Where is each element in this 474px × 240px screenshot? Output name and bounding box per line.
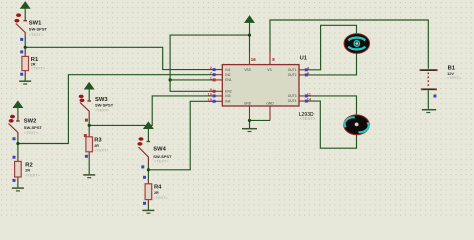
- svg-text:<TEXT>: <TEXT>: [153, 195, 168, 200]
- switch SW1: [14, 13, 27, 41]
- svg-text:SW2: SW2: [24, 119, 37, 125]
- svg-text:10: 10: [208, 92, 213, 97]
- wire SW1 column: [24, 8, 26, 81]
- svg-text:OUT1: OUT1: [288, 68, 297, 72]
- wire OUT1 to motor M1 top: [305, 25, 357, 70]
- svg-text:<TEXT>: <TEXT>: [31, 65, 46, 70]
- svg-text:IN4: IN4: [225, 100, 230, 104]
- IC pin numbers top: [251, 57, 275, 62]
- resistor R2: [13, 156, 22, 182]
- ground below R1: [19, 81, 31, 84]
- ground below IC: [242, 129, 257, 132]
- battery B1: [420, 69, 438, 97]
- svg-text:<TEXT>: <TEXT>: [447, 76, 461, 80]
- svg-text:SW4: SW4: [153, 147, 166, 153]
- svg-text:16: 16: [251, 57, 256, 62]
- svg-text:SW-SPST: SW-SPST: [24, 125, 43, 130]
- svg-text:IN1: IN1: [225, 68, 230, 72]
- IC top pin stubs: [250, 51, 271, 65]
- wire VS pin8 to battery positive: [270, 20, 428, 69]
- label R2: [25, 163, 40, 178]
- svg-text:IN3: IN3: [225, 94, 230, 98]
- svg-text:<TEXT>: <TEXT>: [300, 116, 316, 121]
- IC pin numbers right: [307, 65, 312, 101]
- power arrow for SW2: [13, 101, 22, 107]
- svg-text:VSS: VSS: [244, 68, 251, 72]
- motor M1: [344, 34, 370, 54]
- label SW3: [95, 97, 114, 112]
- ground below battery: [422, 110, 436, 113]
- svg-text:R3: R3: [94, 138, 102, 144]
- svg-text:R4: R4: [154, 185, 162, 191]
- svg-text:<TEXT>: <TEXT>: [25, 172, 40, 177]
- wire SW3 column: [88, 89, 90, 175]
- svg-text:GND: GND: [244, 101, 252, 105]
- wire VCC arrow to VSS pin16: [249, 21, 251, 52]
- IC bottom GND pin stubs: [250, 106, 271, 120]
- wire VCC rail to EN1/EN2: [170, 35, 249, 91]
- resistor R3: [84, 133, 93, 158]
- ground below R4: [142, 210, 154, 213]
- label SW4: [153, 147, 172, 164]
- svg-text:GND: GND: [266, 101, 274, 105]
- label B1: [447, 65, 461, 80]
- IC left pin stubs: [216, 70, 222, 102]
- power arrow for SW1: [21, 2, 30, 8]
- IC left pin terminal squares: [213, 68, 216, 103]
- svg-text:EN2: EN2: [225, 90, 232, 94]
- svg-text:OUT3: OUT3: [288, 94, 297, 98]
- resistor R4: [143, 176, 152, 205]
- svg-text:<TEXT>: <TEXT>: [94, 148, 109, 153]
- svg-text:<TEXT>: <TEXT>: [154, 158, 169, 163]
- resistor R1: [20, 50, 28, 75]
- wire OUT3 to motor M2 top: [305, 96, 357, 116]
- wire SW2 to IN2: [18, 75, 216, 144]
- switch SW4: [137, 137, 150, 168]
- op-amp U1 L293D IC body: [222, 65, 299, 106]
- svg-text:EN1: EN1: [225, 78, 232, 82]
- svg-text:<TEXT>: <TEXT>: [24, 130, 39, 135]
- wire SW3 to IN3: [89, 96, 216, 126]
- IC right pin stubs: [299, 70, 305, 101]
- svg-text:<TEXT>: <TEXT>: [95, 107, 110, 112]
- power arrow for SW4: [144, 122, 153, 128]
- svg-text:B1: B1: [448, 65, 456, 71]
- svg-text:U1: U1: [300, 56, 308, 62]
- wire IC GND bus: [250, 120, 271, 128]
- switch SW3: [79, 95, 91, 122]
- ground below R2: [12, 188, 24, 191]
- label U1: [300, 56, 308, 62]
- label R3: [94, 138, 109, 153]
- ground below R3: [83, 175, 95, 178]
- label SW1: [29, 21, 48, 37]
- IC pin labels inside: [225, 68, 296, 106]
- motor M2: [344, 115, 370, 135]
- label R4: [153, 185, 168, 200]
- wire OUT4 to motor M2 bottom: [305, 101, 357, 148]
- power arrow VCC rail: [245, 16, 254, 22]
- wire SW2 column: [17, 107, 19, 188]
- power arrow for SW3: [85, 83, 94, 89]
- IC pin numbers left: [208, 65, 213, 102]
- svg-text:<TEXT>: <TEXT>: [29, 32, 44, 37]
- wire SW1 to IN1: [25, 47, 216, 69]
- label R1: [31, 57, 46, 71]
- label SW2: [24, 119, 43, 136]
- IC right pin terminal squares: [305, 68, 308, 102]
- svg-text:OUT4: OUT4: [288, 99, 297, 103]
- wire battery negative to ground: [427, 90, 429, 109]
- wire OUT2 to motor M1 bottom: [305, 53, 357, 75]
- svg-text:IN2: IN2: [225, 73, 230, 77]
- svg-text:15: 15: [208, 97, 213, 102]
- wire SW4 column: [147, 128, 149, 210]
- svg-text:OUT2: OUT2: [288, 73, 297, 77]
- label L293D: [299, 112, 316, 121]
- svg-text:14: 14: [307, 97, 312, 102]
- switch SW2: [9, 115, 20, 141]
- svg-text:SW-SPST: SW-SPST: [29, 27, 48, 32]
- wire SW4 to IN4: [148, 101, 216, 170]
